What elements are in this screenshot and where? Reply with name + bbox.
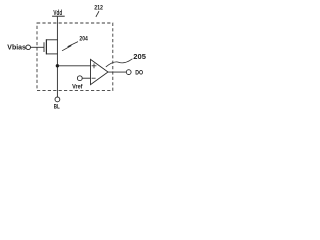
svg-text:Vbias: Vbias <box>7 45 26 52</box>
wire junction to comparator + input <box>57 65 90 67</box>
svg-text:212: 212 <box>94 5 103 12</box>
wire Vbias to gate <box>31 46 45 48</box>
channel bar <box>45 39 47 54</box>
leader line for 212 <box>96 11 99 17</box>
wire Vref to - input <box>82 77 90 79</box>
terminal DO <box>126 70 131 75</box>
terminal BL <box>55 97 60 102</box>
underline of Vdd <box>52 15 65 17</box>
minus sign of - input <box>92 77 96 79</box>
leader curve for 205 <box>106 59 133 67</box>
dashed box 212 <box>37 23 113 91</box>
drain lead <box>46 53 58 55</box>
wire output to DO <box>108 71 126 73</box>
node junction <box>56 64 59 67</box>
op-amp 205 (comparator) <box>91 59 109 84</box>
leader zigzag for 204 <box>62 42 78 51</box>
plus sign of + input <box>92 63 97 68</box>
svg-text:Vref: Vref <box>72 83 83 90</box>
terminal Vref <box>77 76 82 81</box>
svg-text:204: 204 <box>79 36 88 43</box>
svg-text:BL: BL <box>54 104 60 111</box>
svg-text:DO: DO <box>135 70 143 77</box>
source lead <box>46 39 58 41</box>
terminal Vbias <box>26 45 31 50</box>
gate bar <box>43 42 45 52</box>
wire Vdd through transistor to BL <box>56 17 58 97</box>
transistor 204 (MOSFET) <box>44 39 58 54</box>
svg-text:205: 205 <box>133 52 146 61</box>
